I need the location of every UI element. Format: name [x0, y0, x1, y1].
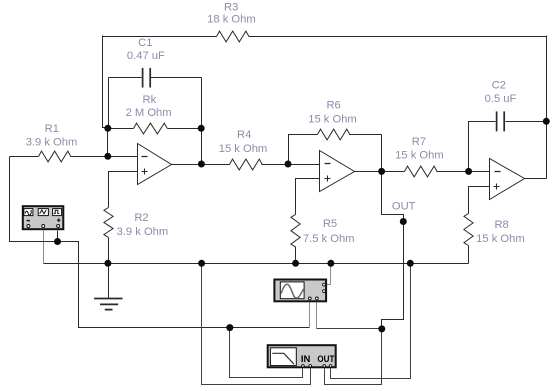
svg-text:R1: R1 — [45, 123, 59, 135]
svg-text:3.9 k Ohm: 3.9 k Ohm — [117, 226, 169, 238]
svg-text:Rk: Rk — [143, 94, 157, 106]
svg-text:15 k Ohm: 15 k Ohm — [395, 149, 444, 161]
svg-text:15 k Ohm: 15 k Ohm — [308, 114, 357, 126]
svg-text:3.9 k Ohm: 3.9 k Ohm — [26, 136, 78, 148]
svg-text:2 M Ohm: 2 M Ohm — [126, 107, 172, 119]
svg-text:15 k Ohm: 15 k Ohm — [476, 233, 525, 245]
svg-text:R6: R6 — [326, 100, 340, 112]
svg-text:R5: R5 — [323, 218, 337, 230]
svg-text:0.47 uF: 0.47 uF — [127, 50, 165, 62]
svg-text:0.5 uF: 0.5 uF — [485, 93, 517, 105]
svg-text:IN: IN — [301, 354, 311, 365]
svg-text:C2: C2 — [492, 80, 506, 92]
svg-text:R3: R3 — [224, 1, 238, 13]
svg-text:R7: R7 — [412, 136, 426, 148]
svg-text:R8: R8 — [494, 219, 508, 231]
svg-text:R4: R4 — [237, 129, 251, 141]
svg-text:15 k Ohm: 15 k Ohm — [219, 143, 268, 155]
svg-text:OUT: OUT — [392, 201, 416, 213]
svg-text:R2: R2 — [134, 212, 148, 224]
svg-text:C1: C1 — [138, 37, 152, 49]
svg-text:18 k Ohm: 18 k Ohm — [207, 14, 256, 26]
svg-text:7.5 k Ohm: 7.5 k Ohm — [303, 233, 355, 245]
svg-text:OUT: OUT — [317, 354, 334, 365]
